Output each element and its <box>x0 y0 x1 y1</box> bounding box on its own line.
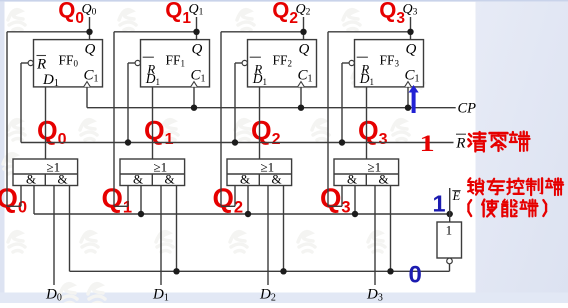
wire R input to R-bar bus <box>342 62 349 64</box>
wire clock pin to CP bus <box>193 87 195 108</box>
junction dots on CP bus <box>191 105 197 111</box>
inverter bubble on R input <box>242 60 247 65</box>
wire inverter output to E bus <box>449 264 451 272</box>
wire Q2 output stub <box>303 17 305 40</box>
annotation red latch control terminal <box>468 178 484 194</box>
wire Q3 output stub <box>410 17 412 40</box>
wire Q0 feedback bottom corner to AND input <box>7 205 21 207</box>
wire AND input from D1 terminal <box>160 186 162 286</box>
wire R-bar clear bus <box>21 142 454 144</box>
wire Q3 feedback bottom corner to AND input <box>328 205 342 207</box>
svg-text:Q: Q <box>192 42 203 58</box>
wire Q2 feedback top <box>221 31 304 33</box>
junction dots on R-bar bus <box>125 139 131 145</box>
background top border strip <box>0 0 568 2</box>
clock edge triangle <box>84 82 91 87</box>
wire Q1 feedback bottom corner to AND input <box>114 205 128 207</box>
flip-flop FF0 cell <box>7 2 103 304</box>
junction dots on E bus <box>173 268 179 274</box>
background bottom strip <box>0 293 568 304</box>
svg-text:0: 0 <box>409 262 422 289</box>
wire AND input to E bus <box>283 186 285 272</box>
wire EN-bar latch bus <box>34 213 450 215</box>
wire clock pin to CP bus <box>407 87 409 108</box>
wire AND input to EN-bar bus <box>247 186 249 215</box>
OR gate >=1 of cell 0 <box>13 159 78 186</box>
wire Q2 feedback bottom corner to AND input <box>221 205 235 207</box>
svg-text:Q: Q <box>85 42 96 58</box>
wire Q0 feedback top <box>7 31 90 33</box>
svg-text:&: & <box>272 172 282 187</box>
wire AND input from D3 terminal <box>374 186 376 286</box>
junction dot Q0 stub <box>86 29 92 35</box>
inverter bubble on R input <box>135 60 140 65</box>
inverter gate 1 <box>437 222 462 258</box>
wire E-bar terminal lead <box>449 188 451 222</box>
wire AND input to EN-bar bus <box>140 186 142 215</box>
svg-text:&: & <box>347 172 357 187</box>
wire R input to R-bar bus <box>128 62 135 64</box>
inverter output bubble <box>447 258 453 264</box>
wire AND input to EN-bar bus <box>33 186 35 215</box>
inverter bubble on R input <box>349 60 354 65</box>
wire D1 pin from OR gate <box>152 87 154 159</box>
flip-flop FF0 box <box>34 40 103 87</box>
wire Q1 output stub <box>196 17 198 40</box>
wire R input to R-bar bus <box>235 62 242 64</box>
svg-text:R: R <box>455 136 465 152</box>
wire AND input from D0 terminal <box>53 186 55 286</box>
wire D1 pin from OR gate <box>259 87 261 159</box>
svg-text:&: & <box>240 172 250 187</box>
annotation red (enable terminal) <box>468 200 471 216</box>
wire AND input to E bus <box>176 186 178 272</box>
OR gate >=1 of cell 1 <box>120 159 185 186</box>
OR gate >=1 of cell 2 <box>227 159 292 186</box>
flip-flop FF2 box <box>248 40 317 87</box>
wire AND input to E bus <box>390 186 392 272</box>
annotation blue clock arrow <box>409 85 419 113</box>
wire Q3 feedback top <box>328 31 411 33</box>
svg-text:1: 1 <box>433 191 446 217</box>
wire Q1 feedback top <box>114 31 197 33</box>
watermark (faint press logo text) <box>3 10 424 304</box>
flip-flop FF3 cell <box>328 2 424 304</box>
svg-text:R: R <box>36 57 46 73</box>
clock edge triangle <box>191 82 198 87</box>
junction dot Q2 stub <box>300 29 306 35</box>
flip-flop FF1 box <box>141 40 210 87</box>
svg-text:1: 1 <box>420 131 435 157</box>
AND gates of cell 3 <box>365 174 367 186</box>
svg-text:CP: CP <box>458 101 477 117</box>
background left strip <box>0 2 5 303</box>
svg-text:&: & <box>165 172 175 187</box>
wire AND input to EN-bar bus <box>354 186 356 215</box>
svg-text:&: & <box>379 172 389 187</box>
wire Q0 output stub <box>89 17 91 40</box>
OR gate >=1 of cell 3 <box>334 159 399 186</box>
annotation red qingling-duan (clear terminal) <box>468 132 485 151</box>
junction dot Q3 stub <box>407 29 413 35</box>
wire D1 pin from OR gate <box>366 87 368 159</box>
junction dots on EN-bar bus <box>138 211 144 217</box>
wire clock pin to CP bus <box>86 87 88 108</box>
svg-text:Q: Q <box>299 42 310 58</box>
svg-text:&: & <box>133 172 143 187</box>
flip-flop FF1 cell <box>114 2 210 304</box>
svg-text:1: 1 <box>446 223 453 238</box>
wire AND input to E bus <box>69 186 71 272</box>
wire D1 pin from OR gate <box>45 87 47 159</box>
wire CP clock bus <box>87 107 456 109</box>
AND gates of cell 0 <box>44 174 46 186</box>
wire AND input from D2 terminal <box>267 186 269 286</box>
flip-flop FF3 box <box>355 40 424 87</box>
flip-flop FF2 cell <box>221 2 317 304</box>
junction dot Q1 stub <box>193 29 199 35</box>
background right panel <box>476 2 568 303</box>
clock edge triangle <box>298 82 305 87</box>
svg-text:&: & <box>58 172 68 187</box>
svg-text:&: & <box>26 172 36 187</box>
inverter bubble on R input <box>28 60 33 65</box>
AND gates of cell 1 <box>151 174 153 186</box>
clock edge triangle <box>405 82 412 87</box>
wire clock pin to CP bus <box>300 87 302 108</box>
wire R input to R-bar bus <box>21 62 28 64</box>
AND gates of cell 2 <box>258 174 260 186</box>
svg-text:Q: Q <box>406 42 417 58</box>
